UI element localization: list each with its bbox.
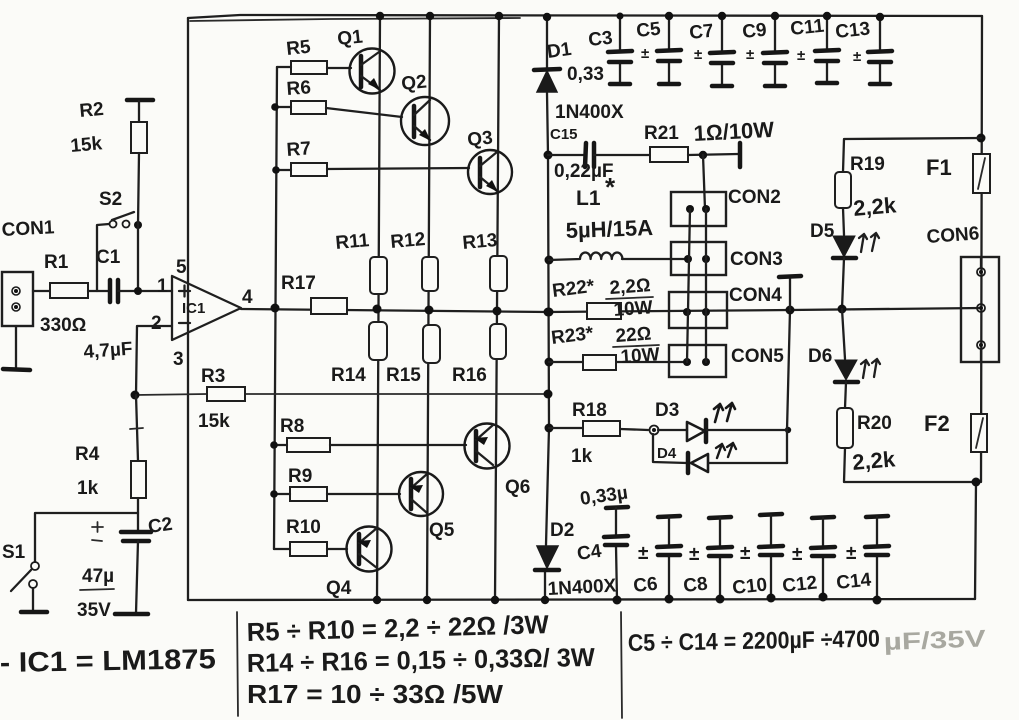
node pin1 junction: [134, 287, 142, 295]
svg-text:4: 4: [242, 287, 253, 308]
svg-text:L1: L1: [576, 187, 601, 210]
capacitor C10: [759, 514, 783, 598]
diode D1: [537, 71, 557, 92]
wire R6 leads: [275, 107, 402, 117]
svg-text:R2: R2: [79, 99, 105, 122]
svg-text:C1: C1: [96, 247, 121, 268]
fuse F1 element: [978, 158, 985, 189]
svg-text:R9: R9: [288, 466, 312, 487]
diode D6: [835, 360, 857, 380]
wire collector bus Q2/Q5: [427, 16, 430, 600]
svg-text:±: ±: [846, 543, 856, 564]
diode D3: [687, 422, 705, 441]
node top rail C9: [771, 12, 779, 20]
wire feedback R3 run: [135, 394, 548, 395]
node R23 junction: [545, 358, 554, 367]
capacitor C14: [865, 516, 889, 600]
node top rail C13: [876, 13, 884, 21]
capacitor C15: [585, 143, 594, 167]
resistor R23: [583, 355, 616, 370]
wire right border lower: [975, 482, 976, 599]
svg-text:±: ±: [853, 48, 861, 65]
node R18 junction: [545, 424, 554, 433]
CON2 pin 1: [686, 205, 694, 213]
wire D4 to right leg: [709, 462, 787, 464]
node top rail C7: [718, 12, 726, 20]
wire L1 to CON3: [622, 258, 688, 260]
node bottom rail C14: [873, 596, 882, 605]
svg-text:C10: C10: [731, 574, 768, 599]
node D3/D4 tap ring: [650, 426, 659, 435]
wire output node vertical column: [545, 17, 549, 600]
node R6 junction: [271, 103, 279, 111]
resistor R19: [835, 172, 851, 208]
svg-text:C13: C13: [834, 18, 871, 43]
svg-text:R3: R3: [201, 366, 225, 387]
capacitor C5: [657, 16, 681, 84]
capacitor C7: [710, 16, 734, 86]
svg-text:5: 5: [176, 257, 187, 278]
svg-text:3: 3: [173, 349, 184, 370]
wire CON6 internal top: [980, 257, 982, 268]
node bottom rail D2: [541, 596, 549, 604]
diode D6 cathode bar: [835, 380, 858, 385]
svg-text:R6: R6: [286, 77, 312, 100]
op-amp IC1 triangle: [172, 276, 241, 340]
svg-text:1N400X: 1N400X: [547, 575, 617, 600]
node top rail Q2 bus: [426, 12, 434, 20]
wire R8 leads: [274, 444, 466, 446]
node S2/R2 junction: [134, 221, 142, 229]
svg-text:D6: D6: [808, 346, 832, 367]
svg-text:Q3: Q3: [466, 127, 493, 151]
svg-text:D1: D1: [546, 39, 573, 63]
ground bar under CON1: [3, 369, 30, 370]
svg-text:±: ±: [638, 543, 648, 564]
svg-text:- IC1 = LM1875: - IC1 = LM1875: [0, 643, 216, 678]
wire D4 tap: [653, 434, 687, 463]
svg-text:C11: C11: [789, 16, 825, 40]
svg-text:C8: C8: [682, 574, 708, 597]
CON6 pin mid: [977, 304, 985, 312]
wire rail to D6: [842, 309, 845, 359]
wire top supply rail: [188, 15, 982, 18]
wire R20 bottom to right border: [844, 448, 976, 482]
resistor R1: [50, 283, 88, 298]
wire S2 node down to pin1 node: [137, 225, 139, 291]
divider line left: [237, 612, 238, 716]
svg-text:330Ω: 330Ω: [40, 315, 86, 336]
svg-text:R18: R18: [572, 400, 607, 421]
svg-text:µF/35V: µF/35V: [883, 625, 986, 656]
capacitor C2 plates: [121, 532, 151, 541]
svg-text:2,2Ω: 2,2Ω: [609, 275, 651, 299]
node top rail C11: [823, 12, 831, 20]
node right border R19 branch: [977, 134, 986, 143]
svg-text:1Ω/10W: 1Ω/10W: [693, 117, 775, 146]
wire top supply rail double stroke: [190, 18, 520, 21]
svg-text:C3: C3: [587, 28, 613, 51]
svg-text:10W: 10W: [613, 297, 654, 321]
divider line right: [621, 612, 622, 718]
wire CON1 to R1: [33, 290, 50, 292]
resistor R2 top T-bar: [127, 98, 153, 103]
svg-text:R12: R12: [390, 229, 427, 253]
capacitor C4: [604, 507, 628, 600]
CON6 pin top: [977, 268, 985, 276]
svg-text:Q4: Q4: [326, 578, 352, 599]
wire base bus left column: [274, 67, 277, 549]
svg-text:R14 ÷ R16 = 0,15 ÷ 0,33Ω/ 3W: R14 ÷ R16 = 0,15 ÷ 0,33Ω/ 3W: [247, 642, 596, 678]
svg-text:15k: 15k: [70, 133, 104, 157]
capacitor C6: [657, 516, 681, 599]
wire C2 ground lead: [136, 541, 138, 613]
wire R9 leads: [274, 493, 400, 495]
node top rail C3: [617, 13, 624, 20]
svg-text:47µ: 47µ: [82, 566, 114, 587]
svg-text:Q1: Q1: [336, 26, 364, 50]
wire D3 anode: [658, 429, 687, 431]
svg-text:R5: R5: [285, 37, 312, 60]
svg-text:R8: R8: [280, 416, 304, 437]
C2 polarity marks: [92, 522, 103, 541]
node rail/R11 junction: [373, 305, 382, 314]
svg-text:2: 2: [151, 313, 162, 334]
node top rail C5: [665, 12, 673, 20]
svg-text:R13: R13: [462, 230, 499, 254]
svg-text:10W: 10W: [620, 344, 661, 368]
connector CON6: [961, 257, 999, 362]
svg-text:C14: C14: [835, 569, 872, 594]
svg-text:±: ±: [740, 543, 750, 564]
connector CON3: [671, 242, 726, 275]
wire collector bus Q1/Q4: [377, 16, 380, 600]
wire R10 leads: [274, 548, 347, 550]
capacitor C12: [811, 517, 835, 597]
svg-text:±: ±: [797, 47, 805, 64]
wire C15 lead: [548, 154, 584, 156]
svg-text:Q2: Q2: [400, 71, 427, 95]
svg-text:IC1: IC1: [182, 300, 205, 317]
resistor R13: [490, 256, 507, 291]
node bottom rail C4: [613, 596, 622, 605]
resistor R22: [587, 303, 621, 319]
svg-text:R20: R20: [857, 413, 892, 434]
svg-text:Q6: Q6: [505, 477, 530, 498]
svg-text:±: ±: [641, 45, 649, 62]
svg-text:S1: S1: [2, 542, 26, 563]
svg-text:1: 1: [157, 276, 168, 297]
svg-text:C2: C2: [147, 514, 174, 538]
wire D3/D4 right leg up to rail: [787, 310, 790, 463]
transistor Q6: [465, 424, 510, 469]
wire C1 to pin1 node: [118, 290, 172, 292]
ground bar under C2: [115, 612, 148, 617]
transistor Q5: [399, 472, 443, 516]
LED arrows D4: [716, 443, 736, 458]
op-amp plus sign: [179, 286, 190, 297]
resistor R21: [650, 147, 688, 162]
svg-text:R21: R21: [644, 123, 679, 144]
resistor R17: [311, 298, 347, 314]
node D3 right junction: [785, 427, 791, 433]
resistor R14: [369, 322, 387, 360]
svg-text:2,2k: 2,2k: [852, 192, 898, 221]
node output junction on base bus: [271, 304, 280, 313]
svg-text:35V: 35V: [77, 600, 111, 621]
svg-text:R14: R14: [331, 365, 366, 386]
wire D5 to rail: [842, 258, 844, 309]
svg-text:1k: 1k: [571, 446, 593, 467]
terminal bar top: [779, 276, 801, 277]
wire right border: [981, 16, 982, 482]
node R9 junction: [270, 490, 278, 498]
svg-text:R17 = 10 ÷ 33Ω /5W: R17 = 10 ÷ 33Ω /5W: [247, 679, 503, 709]
switch S1 contact lower: [29, 580, 37, 588]
svg-text:D5: D5: [810, 221, 835, 242]
svg-text:D2: D2: [550, 520, 574, 541]
resistor R20: [837, 408, 853, 448]
wire R18 run: [549, 428, 648, 430]
capacitor C8: [708, 517, 732, 599]
svg-text:R17: R17: [281, 273, 316, 294]
fuse F1: [973, 154, 990, 193]
CON2 pin 2: [702, 205, 710, 213]
switch S2 lever: [112, 212, 134, 220]
fraction bar 47u/35V: [80, 589, 114, 590]
svg-text:1N400X: 1N400X: [555, 102, 624, 123]
op-amp minus sign: [179, 322, 190, 324]
connector CON1: [2, 272, 33, 326]
svg-text:S2: S2: [99, 189, 122, 210]
node top rail Q1 bus: [376, 12, 384, 20]
resistor R4: [131, 461, 146, 498]
node rail/output column junction: [544, 308, 553, 317]
terminal bar after R21: [738, 143, 743, 167]
LED arrows D3: [714, 403, 735, 422]
svg-text:CON4: CON4: [729, 285, 782, 306]
transistor Q4: [347, 527, 392, 572]
wire output rail from op-amp to output node: [241, 309, 548, 312]
capacitor C11: [815, 16, 839, 83]
svg-text:R7: R7: [286, 138, 312, 161]
svg-text:0,33: 0,33: [567, 64, 604, 85]
capacitor C1: [110, 280, 118, 302]
svg-text:CON5: CON5: [731, 346, 784, 367]
wire S1 branch: [35, 513, 138, 562]
capacitor C9: [763, 16, 787, 86]
resistor R5: [291, 61, 327, 74]
svg-text:R10: R10: [286, 517, 321, 538]
svg-text:CON2: CON2: [728, 187, 781, 208]
node protection rail junction: [838, 305, 847, 314]
wire CON pin column left: [687, 209, 690, 362]
node bottom rail Q4 bus: [373, 596, 381, 604]
svg-text:±: ±: [689, 544, 699, 565]
fraction bar R23: [613, 345, 659, 347]
svg-text:±: ±: [746, 46, 754, 63]
transistor Q3: [468, 150, 512, 194]
resistor R10: [290, 542, 327, 556]
wire R19 branch top: [843, 138, 981, 172]
resistor R18: [583, 421, 620, 436]
svg-text:1k: 1k: [77, 478, 99, 499]
svg-text:±: ±: [694, 46, 702, 63]
transistor Q2: [401, 97, 449, 145]
resistor R12: [422, 257, 438, 291]
node L1 junction: [545, 256, 554, 265]
resistor R9: [290, 487, 327, 501]
svg-text:22Ω: 22Ω: [615, 324, 652, 347]
diode D5: [833, 236, 855, 257]
fuse F2: [971, 414, 987, 452]
wire R2 top lead: [138, 101, 140, 122]
svg-text:C15: C15: [550, 126, 578, 143]
svg-text:R15: R15: [386, 365, 421, 386]
resistor R6: [291, 101, 326, 114]
diode D4 cathode bar: [686, 453, 691, 473]
wire CON6 internal bottom: [980, 349, 982, 362]
capacitor C13: [868, 17, 892, 84]
wire R21 node down to CON2: [703, 155, 705, 209]
svg-text:F2: F2: [924, 411, 950, 436]
wire S1 ground lead: [32, 588, 34, 610]
node top rail output column: [543, 13, 551, 21]
CON5 pin 2: [702, 358, 710, 366]
diode D2 cathode bar: [535, 568, 559, 573]
switch S2 contacts: [110, 221, 117, 228]
svg-text:5µH/15A: 5µH/15A: [565, 215, 653, 243]
svg-text:C5 ÷ C14 = 2200µF ÷4700: C5 ÷ C14 = 2200µF ÷4700: [628, 626, 880, 657]
node R21/CON2 junction: [699, 151, 707, 159]
resistor R7: [291, 163, 327, 176]
transistor Q1: [350, 49, 395, 94]
node bottom rail C12: [819, 593, 828, 602]
svg-text:C4: C4: [576, 541, 603, 565]
node top rail Q3 bus: [495, 12, 503, 20]
CON3 pin 1: [684, 255, 692, 263]
CON1 pin 1: [12, 287, 20, 295]
node R8 junction: [270, 441, 278, 449]
terminal bar above speaker tap: [789, 278, 791, 310]
svg-text:±: ±: [792, 544, 802, 565]
CON5 pin 1: [683, 358, 691, 366]
wire D3 to right leg: [707, 429, 787, 431]
wire R4 branch: [136, 395, 138, 461]
wire R4 to C2: [137, 498, 139, 532]
diode D2: [537, 546, 558, 568]
ground bar under S1: [21, 610, 47, 615]
svg-text:C12: C12: [781, 572, 818, 597]
wire D6 to R20: [845, 382, 846, 408]
diode D4: [691, 454, 708, 472]
node bottom rail C6: [665, 595, 674, 604]
resistor R11: [370, 257, 387, 294]
svg-text:CON3: CON3: [730, 249, 783, 270]
node bottom rail Q6 bus: [491, 596, 499, 604]
wire C15 to R21: [594, 154, 650, 156]
wire S2 bypass bracket: [97, 224, 109, 291]
svg-text:R19: R19: [850, 154, 885, 175]
svg-text:D3: D3: [655, 400, 679, 421]
svg-text:R16: R16: [452, 365, 487, 386]
node R22 junction: [545, 308, 554, 317]
diode D1 cathode bar: [534, 69, 560, 70]
node right border bottom junction: [972, 478, 981, 487]
node C15 junction: [544, 151, 553, 160]
CON3 pin 2: [702, 255, 710, 263]
svg-text:*: *: [605, 172, 616, 202]
resistor R2: [131, 122, 147, 153]
svg-text:C9: C9: [741, 20, 767, 43]
LED arrows D6: [861, 359, 880, 378]
node bottom rail C10: [767, 594, 776, 603]
node speaker rail tap: [786, 306, 795, 315]
wire left border / pin5-pin3 supply line: [187, 18, 189, 600]
svg-text:Q5: Q5: [429, 520, 455, 541]
svg-text:CON6: CON6: [926, 223, 980, 248]
wire speaker rail to CON6: [548, 308, 981, 312]
fuse F2 element: [976, 418, 983, 448]
resistor R15: [423, 325, 440, 363]
LED arrows D5: [859, 233, 879, 252]
CON4 pin 1: [683, 308, 691, 316]
wire CON pin column right: [705, 209, 707, 362]
resistor R3: [207, 387, 245, 401]
wire pin2 lead: [136, 326, 172, 395]
fraction bar R22: [606, 297, 653, 299]
wire R2 bottom lead: [138, 153, 139, 225]
node rail/R12 junction: [425, 306, 434, 315]
svg-text:R1: R1: [44, 252, 69, 273]
CON1 pin 2: [12, 303, 20, 311]
svg-text:2,2k: 2,2k: [851, 446, 897, 475]
node rail/R13 junction: [493, 307, 502, 316]
wire collector bus Q3/Q6: [495, 16, 499, 600]
svg-text:4,7µF: 4,7µF: [83, 339, 133, 363]
node R3 right junction: [544, 390, 553, 399]
svg-text:R11: R11: [335, 230, 371, 254]
wire R1 to C1: [88, 290, 109, 292]
svg-text:C7: C7: [688, 21, 714, 44]
wire R19 to D5: [843, 208, 844, 235]
node bottom rail C8: [716, 595, 725, 604]
diode D5 cathode bar: [833, 256, 856, 261]
inductor L1 coil: [549, 253, 622, 260]
svg-text:F1: F1: [926, 155, 952, 180]
capacitor C3: [608, 16, 632, 84]
wire R5 leads: [277, 67, 351, 68]
node R7 junction: [272, 166, 280, 174]
resistor R16: [490, 324, 506, 359]
connector CON5: [669, 345, 726, 377]
wire R21 to stub: [688, 154, 738, 155]
node feedback junction: [131, 391, 140, 400]
svg-text:R4: R4: [75, 444, 100, 465]
svg-text:D4: D4: [657, 445, 677, 462]
svg-text:15k: 15k: [198, 411, 230, 432]
svg-text:CON1: CON1: [1, 217, 55, 241]
connector CON4: [669, 292, 727, 328]
wire bottom negative rail: [188, 599, 975, 600]
switch S1 lever: [11, 570, 31, 591]
svg-text:C5: C5: [635, 19, 662, 42]
CON6 pin bottom: [977, 341, 985, 349]
diode D3 cathode bar: [704, 420, 709, 442]
resistor R8: [287, 438, 330, 452]
wire CON1 ground lead: [15, 326, 17, 368]
svg-text:C6: C6: [632, 574, 658, 597]
